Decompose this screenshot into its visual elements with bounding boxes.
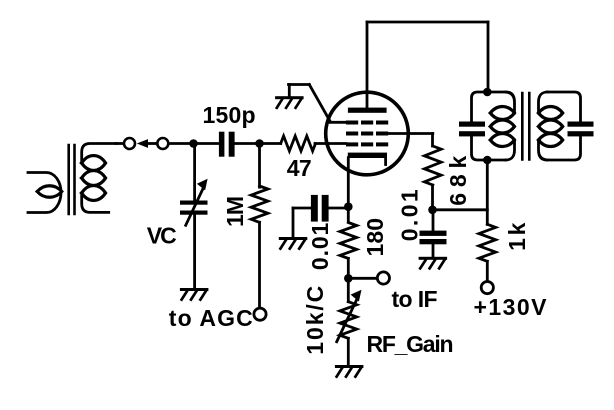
svg-text:to AGC: to AGC [169, 305, 253, 331]
svg-text:0.01: 0.01 [307, 222, 333, 270]
svg-text:68k: 68k [445, 155, 471, 205]
svg-text:VC: VC [147, 223, 177, 249]
svg-text:180: 180 [362, 218, 388, 257]
svg-text:1M: 1M [222, 196, 248, 227]
svg-text:150p: 150p [203, 102, 256, 128]
svg-text:to IF: to IF [392, 286, 438, 312]
svg-text:47: 47 [287, 155, 312, 181]
svg-text:RF_Gain: RF_Gain [367, 331, 454, 357]
svg-text:10k/C: 10k/C [302, 286, 328, 355]
svg-text:0.01: 0.01 [396, 189, 422, 241]
svg-text:+130V: +130V [474, 294, 548, 320]
svg-text:1k: 1k [504, 222, 530, 251]
